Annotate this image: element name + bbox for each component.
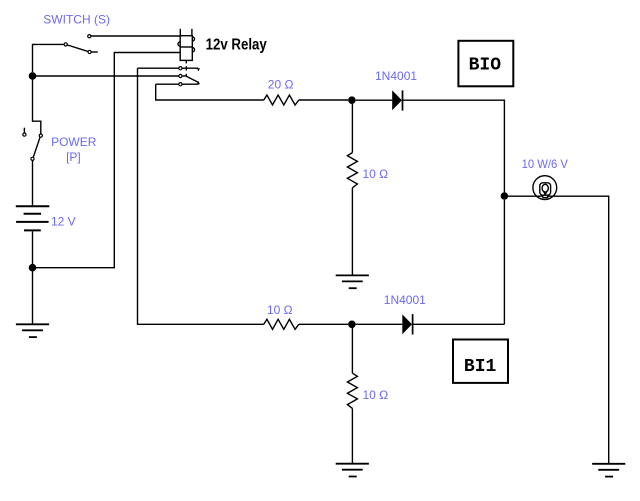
wire node C to diode D1 [356,99,393,101]
node D junction dot [501,192,509,200]
wire node A to relay contact row2 [33,75,179,77]
wire node D through lamp to right corner [504,196,608,463]
switch S [64,35,98,54]
box BIO [458,41,513,87]
relay linkage dashed line [185,61,187,76]
wire node D down to lower branch [503,200,505,324]
wire row1 common down to lower branch [138,68,264,324]
svg-text:BI1: BI1 [464,357,497,377]
wire D1 to right corner down to node D [403,100,505,192]
wire R1 to node C [299,99,348,101]
wire node E down to resistor R4 [351,328,353,373]
ground (battery) [16,324,49,337]
switch P (POWER) [23,128,43,161]
svg-text:10 Ω: 10 Ω [267,303,293,317]
relay contact row3 [156,81,200,86]
wire R2 to ground [351,188,353,275]
wire node B to ground [32,272,34,324]
wire switch S throw to relay coil [91,35,180,37]
svg-text:10 W/6 V: 10 W/6 V [522,157,568,171]
svg-text:12v Relay: 12v Relay [206,37,267,54]
wire node C down to resistor R2 [351,104,353,153]
ground (bottom middle) [336,464,369,477]
resistor R2 10ohm vertical [347,153,357,188]
ground (right) [592,464,625,477]
svg-text:BIO: BIO [469,55,502,75]
resistor R4 10ohm vertical [347,373,357,408]
wire node E to diode D2 [356,323,403,325]
node E junction dot [348,321,356,329]
diode D1 1N4001 [392,90,402,110]
wire row3 to upper branch [156,84,264,100]
wire R3 to node E [299,323,348,325]
svg-text:1N4001: 1N4001 [375,69,417,83]
resistor R1 20ohm [264,95,299,105]
wire node B to relay coil bottom terminal [33,53,181,268]
svg-text:1N4001: 1N4001 [384,293,426,307]
wire node A down to power switch [33,79,41,134]
svg-text:[P]: [P] [66,150,81,164]
lamp L1 10W/6V [533,176,557,200]
svg-text:10 Ω: 10 Ω [363,388,389,402]
wire switch P to battery [32,161,34,206]
box BI1 [453,340,508,383]
relay contact row1 (common) [138,67,201,72]
relay contact row2 [179,74,199,82]
node C junction dot [348,96,356,104]
ground (middle) [336,275,369,288]
svg-text:20 Ω: 20 Ω [268,78,294,92]
relay coil K1 [178,29,195,61]
node A junction dot [29,72,37,80]
node B junction dot [29,264,37,272]
battery 12V [16,206,50,230]
wire battery to node B [32,231,34,264]
svg-text:12 V: 12 V [51,214,76,228]
svg-text:POWER: POWER [51,135,97,149]
wire R4 to ground [351,408,353,463]
svg-text:10 Ω: 10 Ω [363,167,389,181]
wire D2 to node D column [413,323,505,325]
wire switch S pole from corner to junction A [33,44,64,72]
diode D2 1N4001 [402,314,412,334]
svg-text:SWITCH (S): SWITCH (S) [43,13,110,27]
resistor R3 10ohm lower branch [264,319,299,329]
